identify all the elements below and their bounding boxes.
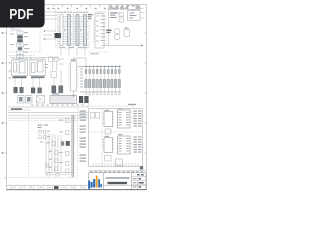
bus wire row 3 (8, 114, 88, 116)
dashed split inside module (101, 109, 103, 166)
wire bottom return second (45, 174, 70, 176)
module corner reference mark (140, 166, 143, 169)
U1 pin ticks (58, 17, 73, 45)
shift register U9 pin rows (119, 138, 130, 151)
title text line 1 (106, 177, 130, 179)
resistor R24 bottom (56, 173, 59, 176)
dashed isolation boundary (left) (8, 26, 40, 56)
capacitor C2 (dark blob) (31, 88, 35, 94)
connector pin P1 (circle) (11, 28, 14, 31)
crystal Y2 inner (27, 97, 31, 102)
title block divider data column (131, 173, 133, 190)
dashed link down to display module (88, 95, 90, 108)
driver U4 refdes (71, 59, 77, 60)
revision strip cells (90, 171, 143, 172)
wire col2 (89, 67, 91, 93)
wire PS1 vertical rail (108, 9, 110, 46)
title block outline (89, 173, 147, 190)
transformer T1 winding rungs (17, 63, 19, 73)
interstage capacitor C18 (105, 129, 111, 134)
capacitor C13 (65, 151, 69, 155)
diode D3 (119, 13, 123, 17)
capacitor C9 (43, 136, 46, 139)
resistor R16 (107, 70, 109, 74)
capacitor C8 label (125, 28, 129, 29)
resistor R23 bottom (47, 173, 50, 176)
sheet border frame (7, 5, 147, 190)
pin label dashes above wires (47, 8, 55, 9)
transformer T2 winding rungs (36, 63, 38, 71)
resistor R10 (85, 70, 87, 74)
frame grid numbers bottom margin (12, 187, 83, 188)
driver U4 pin ticks (69, 64, 79, 85)
wire col7 (107, 67, 109, 93)
dashed enclosure right edge (77, 108, 79, 178)
net name stack A (right of rail) (80, 111, 87, 121)
capacitor C1 cross (17, 43, 23, 47)
relay K2 inner cross (37, 96, 45, 104)
MCU U3 inner pin labels (96, 16, 99, 42)
transistor Q1 (85, 80, 87, 88)
transformer T1 primary loop (12, 60, 28, 76)
resistor R21 (43, 130, 46, 133)
crystal Y2 (26, 96, 33, 104)
U8 refdes label (105, 136, 110, 137)
header J2 refdes (52, 93, 59, 94)
transformer T3 winding top (114, 29, 120, 35)
capacitor C12 (65, 131, 69, 135)
pull-up resistor row R1-R6 (107, 7, 144, 9)
resistor R19 (119, 70, 121, 74)
shift register U9 body (118, 136, 131, 154)
frame grid letters left margin (2, 32, 4, 154)
wire drops below modules (61, 48, 85, 55)
bus stub row (8, 109, 30, 111)
shift register U7 pin rows (119, 112, 130, 125)
transistor Q7 (107, 80, 109, 88)
PDF badge (0, 0, 45, 28)
MCU U3 pin ticks right (104, 16, 107, 44)
net stub labels left margin (9, 63, 12, 79)
frame inner bottom line (7, 184, 147, 186)
resistor pack RN2 rows (134, 137, 142, 153)
dashed rail below U3 (88, 51, 108, 53)
wire top feed lines (10, 58, 58, 61)
MCU U3 refdes text (88, 14, 93, 19)
transistor Q12 (54, 151, 57, 155)
capacitor C8 (124, 30, 130, 37)
driver U4 body (71, 62, 77, 92)
inductor L1 (dark) (17, 39, 23, 42)
zener D6 (darker) (61, 141, 64, 145)
U2 inverter symbol (80, 29, 82, 32)
switch SW1 box (17, 51, 23, 54)
net label dashes right of driver U4 (80, 69, 83, 88)
PS label text (110, 12, 118, 18)
bus wire row 4 (8, 117, 88, 119)
display module enclosure (89, 109, 143, 167)
regulator VR1 box (49, 57, 53, 61)
wire output rail to edge (101, 45, 141, 47)
wire col5 (100, 67, 102, 93)
capacitor C21 slash (46, 164, 50, 168)
title block revision strip (89, 170, 147, 172)
title block data text (137, 174, 144, 176)
IO expander U2 dashed module B (74, 13, 90, 49)
wire P1 to input chain (14, 29, 20, 31)
transformer T3 winding bottom (114, 34, 120, 40)
value labels beside chain (24, 32, 30, 53)
jabil logo (88, 176, 102, 189)
cluster label texture (40, 131, 52, 168)
transistor Q6 (103, 80, 105, 88)
net labels for shunt column (59, 120, 63, 164)
title block divider logo cell (103, 173, 105, 190)
wire above U3 (95, 11, 106, 13)
sheet number text bottom margin (54, 186, 59, 189)
resistor R14 (100, 70, 102, 74)
module connector pin ticks (93, 163, 138, 166)
U2 left gate column (76, 15, 79, 46)
relay K2 (37, 96, 45, 104)
wire stubs U7 to RN1 (130, 112, 134, 148)
transistor Q11 (52, 142, 55, 146)
latch U8 body (104, 138, 113, 153)
U6 refdes label (105, 110, 110, 111)
resistor R13 (96, 70, 98, 74)
ground symbol under driver (72, 91, 75, 96)
crystal Y1 inner (19, 97, 23, 102)
U2 right gate column (84, 15, 87, 46)
capacitor C15 (65, 169, 69, 173)
decoupling capacitor C19 (105, 156, 112, 162)
pin name text row above modules (58, 12, 88, 13)
header J2 body (50, 96, 77, 104)
input protection box FB1 (128, 11, 141, 21)
transistor Q8 (111, 80, 113, 88)
LED/transistor array columns (85, 67, 121, 93)
frame grid numbers top margin (48, 8, 134, 9)
value labels beside VR chain (45, 64, 49, 68)
resistor R18 (115, 70, 117, 74)
capacitor C14 (65, 161, 69, 165)
wire col4 (96, 67, 98, 93)
crystal Y1 (18, 96, 25, 104)
MCU U3 body (95, 14, 104, 49)
resistor R11 (89, 70, 91, 74)
dashed enclosure bottom (8, 177, 78, 179)
resistor R12 (93, 70, 95, 74)
capacitor C17 (96, 113, 100, 119)
latch U8 pins (103, 140, 115, 149)
resistor pack RN1 rows (134, 111, 142, 127)
shunt parts on rail: capacitor C11 (65, 119, 69, 123)
resistor R22 (39, 136, 42, 139)
bias network labels (38, 125, 49, 129)
wire col9 (115, 67, 117, 93)
transistor Q3 (92, 80, 94, 88)
dashed module rail left (55, 9, 57, 50)
wire col6 (104, 67, 106, 93)
frame zone ticks bottom (11, 185, 85, 190)
rectifier D1 (dark blob) (14, 87, 18, 93)
capacitor C10 (54, 167, 57, 171)
diode D5 (54, 159, 57, 163)
boundary label (128, 104, 136, 105)
latch U6 body (104, 112, 113, 127)
capacitor C20 (raised above connector row) (116, 159, 123, 166)
array junction dots (85, 66, 120, 67)
resistor row labels (110, 5, 140, 6)
wire col10 (118, 67, 120, 93)
choke L2 box (17, 55, 23, 58)
IO expander U1 dashed module A (58, 13, 74, 49)
capacitor C16 (91, 113, 95, 119)
paper background (0, 0, 149, 198)
fuse F1 (17, 31, 23, 35)
node A junction dots (44, 30, 46, 40)
diode D3 slash (119, 13, 123, 17)
frame zone ticks left (4, 33, 6, 178)
title text line 2 (bold part number) (108, 182, 128, 184)
wire col8 (111, 67, 113, 93)
capacitor C6 (dark blob) (59, 86, 64, 94)
transistor Q5 (100, 80, 102, 88)
resistor R17 (111, 70, 113, 74)
U9 refdes label (118, 134, 123, 135)
pin name text row below modules (59, 47, 87, 48)
transistor Q9 (114, 80, 116, 88)
frame zone ticks right (144, 33, 146, 153)
net name stack A2 (80, 126, 87, 133)
svg-text:PDF: PDF (9, 7, 33, 23)
LED array return bus (80, 91, 121, 93)
MCU U3 pin ticks left (93, 21, 95, 42)
net label under dashed rail (90, 53, 99, 54)
U1 left gate column (60, 15, 63, 46)
wire col1 (85, 67, 87, 93)
relay K2 coil bar (31, 76, 45, 78)
transistor Q4 (96, 80, 98, 88)
relay RL1 at top row (128, 5, 136, 9)
LED array supply bus (79, 66, 122, 68)
wire col3 (93, 67, 95, 93)
power rail pair vertical (72, 115, 74, 177)
U1 right gate column (68, 15, 71, 46)
rectifier D2 (dark blob) (20, 87, 24, 93)
diode D4 (119, 18, 123, 22)
filter FL1 (dark filled block) (55, 33, 62, 38)
capacitor C4 box (51, 72, 57, 78)
wire bottom return (45, 172, 73, 174)
transistor Q2 (89, 80, 91, 88)
transistor Q10 (118, 80, 120, 88)
capacitor C3 (dark blob) (38, 88, 42, 94)
FB1 inner label (130, 13, 137, 19)
capacitor C1 box (17, 43, 23, 47)
transformer T2 primary loop (30, 60, 46, 76)
net label dashes left of chain (10, 34, 14, 46)
net name stack B (80, 138, 87, 148)
wire input chain vertical (19, 30, 21, 60)
regulator VR2 box (54, 57, 58, 61)
thermistor RT1 (dark) (18, 47, 22, 49)
U2 pin ticks (74, 17, 89, 45)
wire verticals below transformers (15, 70, 61, 94)
bus wire row 1 (8, 106, 88, 108)
MCU stub column (101, 16, 104, 41)
bus wire row 2 (8, 111, 88, 113)
title block data rows (132, 177, 147, 190)
switch SW2 (dark) (84, 96, 88, 103)
dashed divider between module stages (89, 131, 142, 133)
wire label dashes above bus (31, 104, 84, 107)
zener D7 (darker) (66, 141, 70, 146)
bus label text (11, 108, 22, 110)
capacitor C5 (dark blob) (52, 86, 57, 94)
header J2 pins (52, 96, 74, 104)
latch U6 pins (103, 114, 115, 123)
shift register U7 body (118, 110, 131, 128)
wire regulator outputs (53, 59, 65, 70)
U7 refdes label (118, 108, 123, 109)
net name stack C (80, 155, 87, 162)
dashed enclosure top (bottom-left module) (8, 120, 78, 122)
dashed spine vertical (28, 113, 30, 177)
buzzer LS1 (dark) (79, 96, 83, 103)
array labels under bus (85, 94, 121, 95)
resistor R20 (39, 130, 42, 133)
frame outer bottom emphasis (7, 189, 147, 191)
U1 inverter symbol (64, 29, 66, 32)
capacitor C21 with cross (46, 164, 50, 168)
varistor RV1 (dark) (17, 35, 23, 38)
frame zone ticks top (16, 5, 137, 8)
wire U4 top feed (74, 58, 87, 67)
wire stubs into connector J1 (43, 31, 56, 39)
wire bus from badge to expander block (45, 12, 57, 19)
wire risers bottom-left (46, 133, 61, 173)
wire FB1 to edge (140, 13, 145, 19)
off-sheet arrow (141, 44, 144, 46)
relay K1 coil bar (13, 76, 27, 78)
battery BT1 label (107, 30, 112, 34)
dashed boundary above display module (86, 105, 134, 107)
resistor R15 (104, 70, 106, 74)
